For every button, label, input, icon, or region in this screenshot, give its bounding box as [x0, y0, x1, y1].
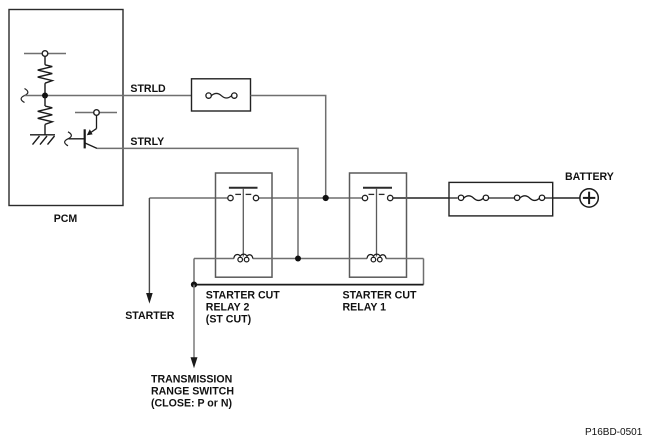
transistor Q1: [69, 115, 98, 148]
relay 1 armature bar: [363, 187, 392, 189]
fuse F1 box: [192, 79, 251, 111]
svg-text:BATTERY: BATTERY: [565, 171, 614, 183]
fuse F1 element: [206, 93, 237, 98]
coil wire (STRLY rail through both relay coils): [194, 259, 424, 285]
wire between relay 2 and relay 1: [259, 197, 363, 199]
wire break squiggle (Q1 base): [65, 132, 72, 146]
ground: [30, 135, 55, 145]
battery fuse elements: [449, 195, 553, 200]
transistor Q1 emitter rail: [75, 112, 117, 114]
wire STRLY to relay coils: [97, 148, 298, 258]
transistor Q1 emitter terminal circle: [94, 110, 100, 116]
TRS drop wire: [193, 285, 195, 359]
relay 2 coil: [234, 254, 253, 262]
TRS arrowhead: [191, 357, 198, 368]
relay 2 link: [242, 189, 244, 257]
resistor R2 (pull-down): [38, 96, 53, 135]
battery fuse box: [449, 182, 553, 216]
transistor Q1 emitter arrowhead: [87, 129, 93, 135]
relay 2 armature bar: [229, 187, 258, 189]
battery terminal: [580, 189, 598, 207]
relay 2 contact circles: [228, 195, 233, 200]
svg-text:STARTER: STARTER: [125, 310, 175, 322]
supply terminal circle: [42, 51, 48, 57]
svg-text:RANGE SWITCH: RANGE SWITCH: [151, 385, 234, 397]
wire STRLD fuse to junction: [251, 96, 326, 199]
svg-text:STARTER CUT: STARTER CUT: [343, 290, 417, 302]
wire break squiggle (STRLD inside PCM): [21, 89, 28, 103]
wire fuse to battery: [553, 197, 580, 199]
junction dot STRLD node: [42, 93, 48, 99]
bottom wire (coil return): [194, 284, 424, 286]
svg-text:(ST CUT): (ST CUT): [206, 314, 251, 326]
junction dot STRLY/coils: [295, 256, 301, 262]
resistor R1 (pull-up): [38, 56, 53, 95]
relay 1 contact circles: [362, 195, 367, 200]
relay 1 box: [350, 173, 407, 277]
relay 1 coil: [367, 254, 386, 262]
STARTER drop wire: [148, 198, 150, 294]
wire STRLD from PCM to fuse: [25, 95, 192, 97]
svg-text:TRANSMISSION: TRANSMISSION: [151, 373, 232, 385]
svg-text:RELAY 2: RELAY 2: [206, 302, 250, 314]
svg-text:(CLOSE: P or N): (CLOSE: P or N): [151, 398, 232, 410]
svg-text:STRLY: STRLY: [130, 136, 164, 148]
svg-text:STRLD: STRLD: [130, 83, 166, 95]
relay 1 link: [376, 189, 378, 257]
junction dot main/STRLD: [323, 195, 329, 201]
relay 1 contact dashes: [369, 193, 385, 195]
relay 2 box: [216, 173, 273, 277]
svg-text:STARTER CUT: STARTER CUT: [206, 290, 280, 302]
svg-text:P16BD-0501: P16BD-0501: [585, 427, 643, 438]
relay 2 contact dashes: [235, 193, 251, 195]
STARTER arrowhead: [146, 293, 153, 304]
pull-up supply rail: [24, 53, 66, 55]
PCM box: [9, 10, 123, 206]
svg-text:RELAY 1: RELAY 1: [343, 302, 387, 314]
main wire from STARTER node through relay contacts: [149, 197, 227, 199]
wire relay 1 to battery fuse: [393, 197, 449, 199]
svg-text:PCM: PCM: [54, 213, 78, 225]
junction dot coil return / TRS: [191, 282, 197, 288]
